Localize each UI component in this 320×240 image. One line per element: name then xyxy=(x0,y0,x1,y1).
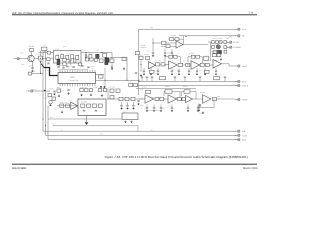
ground left cluster extra xyxy=(53,93,56,96)
junction 8 xyxy=(108,99,109,100)
wire fb drop U202-2 xyxy=(183,36,185,45)
capacitor filter internal extra 2 xyxy=(68,60,70,63)
resistor R269 mixer column xyxy=(136,52,140,55)
wire to SQ WIPE pin xyxy=(227,46,229,48)
capacitor row3 bypass 2 xyxy=(153,105,155,108)
pin U201 bottom 12 xyxy=(87,84,89,87)
resistor R282 xyxy=(160,77,166,80)
wire collector output xyxy=(39,52,54,54)
wire row3 seg3 xyxy=(193,98,203,100)
wire IF2 drop xyxy=(111,53,113,60)
connector pin STAT B xyxy=(235,84,240,87)
ground row3 bypass 4 xyxy=(171,109,174,112)
capacitor matching extra xyxy=(47,62,49,65)
wire net lower xyxy=(53,125,138,127)
wire stat line xyxy=(136,85,237,87)
header rule xyxy=(12,14,257,16)
ground row3 bypass 1 xyxy=(146,109,149,112)
wire row3 input vertical xyxy=(107,89,109,100)
capacitor C218 dark xyxy=(105,58,108,64)
pin U201 bottom 11 xyxy=(84,84,86,87)
arrow feed junction xyxy=(44,90,46,92)
wire fb rail U203-2 xyxy=(165,56,181,58)
ground C207 xyxy=(85,55,88,58)
pin U201 bottom 5 xyxy=(69,84,71,87)
ground squelch block xyxy=(85,122,89,125)
svg-text:R240: R240 xyxy=(128,82,132,84)
svg-text:AT CEL: AT CEL xyxy=(233,41,239,44)
svg-text:C204: C204 xyxy=(43,45,47,47)
wire row2 seg3 xyxy=(200,64,214,66)
svg-text:C208: C208 xyxy=(96,49,100,51)
resistor R273 feedback xyxy=(169,55,173,58)
svg-text:VOL: VOL xyxy=(150,129,153,131)
arrow pin 13 down xyxy=(103,86,105,88)
ground row2 bypass 2 xyxy=(150,73,153,76)
ground row3 bypass 6 xyxy=(197,109,200,112)
wire T3a input stub xyxy=(139,98,144,100)
ground row2 bypass 5 xyxy=(178,73,181,76)
ground cluster xyxy=(218,54,221,57)
capacitor T3a input xyxy=(137,100,139,103)
pin U201 top 4 xyxy=(67,70,69,73)
resistor R281 second fb box xyxy=(196,55,200,58)
wire mid rail xyxy=(110,57,127,59)
wire row2 seg2 xyxy=(177,64,191,66)
wire row3 input xyxy=(108,98,145,100)
ground row2 bypass 4 xyxy=(171,73,174,76)
resistor R296 feedback xyxy=(146,90,151,93)
svg-text:C202: C202 xyxy=(37,54,41,56)
junction 2 xyxy=(139,81,140,82)
svg-text:R223: R223 xyxy=(80,65,83,67)
ground Z202 b xyxy=(130,120,133,123)
svg-text:SQ IN: SQ IN xyxy=(242,134,248,137)
resistor R211 xyxy=(52,97,56,100)
resistor R235 xyxy=(92,104,96,107)
svg-text:STAT B: STAT B xyxy=(242,84,249,87)
ground C250 xyxy=(152,54,155,57)
inductor L201 xyxy=(30,49,34,52)
ground under R231 xyxy=(61,111,64,114)
capacitor C251 xyxy=(164,49,166,53)
filter block Z202 xyxy=(122,113,138,120)
svg-text:C245: C245 xyxy=(52,124,56,126)
capacitor C250 xyxy=(152,52,154,55)
op-amp U251-1 xyxy=(186,95,193,102)
capacitor row2 bypass 3 xyxy=(157,68,159,71)
svg-text:SQ DET: SQ DET xyxy=(81,101,87,104)
svg-text:C283: C283 xyxy=(140,105,143,107)
wire row3 seg1 xyxy=(154,98,169,100)
pin U201 bottom 14 xyxy=(92,84,94,87)
svg-text:C274: C274 xyxy=(176,70,179,72)
op-amp U204-2 xyxy=(191,61,200,69)
ground row3 in 3 xyxy=(132,107,135,110)
ground V139 base xyxy=(140,74,143,77)
wire IF bus thick segment xyxy=(41,64,44,68)
svg-text:C227: C227 xyxy=(60,90,63,92)
resistor R251 xyxy=(175,38,179,41)
capacitor C207 xyxy=(85,53,87,55)
op-amp U250-2 xyxy=(168,95,177,103)
wire RX audio line to J2 xyxy=(179,35,237,37)
ground spkr fb xyxy=(202,111,205,114)
svg-text:C220: C220 xyxy=(60,57,64,59)
ground C252 xyxy=(171,54,174,57)
capacitor C212 injection xyxy=(29,72,32,75)
svg-text:R264: R264 xyxy=(213,45,217,47)
pin U201 top 3 xyxy=(64,70,66,73)
wire vertical x153 xyxy=(152,38,154,52)
connector pin TX A xyxy=(235,28,240,31)
filter element 3 xyxy=(66,55,69,59)
resistor R225 xyxy=(57,89,61,92)
svg-text:C200: C200 xyxy=(20,53,24,55)
ground C225 xyxy=(67,92,70,95)
crystal filter FL201 outline xyxy=(54,51,82,64)
connector pin VOL xyxy=(235,130,240,133)
svg-text:R265: R265 xyxy=(150,27,153,29)
svg-text:R204: R204 xyxy=(88,53,92,55)
resistor R232 xyxy=(66,104,70,107)
svg-text:R203: R203 xyxy=(63,46,67,48)
wire IF signal heavy trace xyxy=(44,68,58,76)
svg-text:C273: C273 xyxy=(152,70,155,72)
resistor R220 xyxy=(90,58,93,61)
capacitor C209 dark body xyxy=(105,58,109,62)
wire squelch row xyxy=(57,105,78,107)
resistor R258 xyxy=(212,46,215,49)
junction 5 xyxy=(141,64,142,65)
wire row3 seg2 xyxy=(177,98,186,100)
svg-text:VOL: VOL xyxy=(242,130,246,133)
svg-text:SPKR +: SPKR + xyxy=(242,98,248,101)
svg-text:R290 R291: R290 R291 xyxy=(108,87,115,89)
ground row3 bypass 2 xyxy=(153,109,156,112)
wire net to R9 block xyxy=(48,118,122,120)
resistor R206 xyxy=(110,59,114,62)
op-amp U250-1 xyxy=(145,95,154,103)
svg-text:C260: C260 xyxy=(214,35,217,37)
ground C210 xyxy=(49,104,52,107)
wire fb rail U251-1 xyxy=(182,91,197,93)
wire drop to volume bus xyxy=(137,126,139,131)
squiggle volume arrow xyxy=(226,37,232,39)
wire vertical x210.5 xyxy=(210,42,212,61)
resistor R280 xyxy=(217,54,221,57)
capacitor filter-IC band 4 xyxy=(87,66,89,69)
capacitor C210 polarized xyxy=(49,100,53,104)
pin U201 bottom 7 xyxy=(74,84,76,87)
ground row2 bypass 1 xyxy=(143,73,146,76)
capacitor stub line1 1 xyxy=(141,78,143,81)
transistor Q201 xyxy=(28,55,34,61)
resistor R259b xyxy=(224,46,227,49)
junction 11 xyxy=(43,119,44,120)
resistor R293 xyxy=(119,97,123,100)
junction 4 xyxy=(186,36,187,37)
pin U201 bottom 1 xyxy=(59,84,61,87)
wire rssi bus xyxy=(48,106,237,140)
svg-text:C246: C246 xyxy=(60,129,63,131)
resistor R298 xyxy=(160,97,164,100)
wire volume bus xyxy=(43,51,237,132)
svg-text:C221: C221 xyxy=(59,65,62,67)
resistor R230 xyxy=(103,89,106,92)
ground Z202 a xyxy=(124,120,127,123)
capacitor stub line1 5 xyxy=(184,78,186,81)
ground C291 xyxy=(198,109,201,112)
filter element 4 xyxy=(71,55,74,59)
junction injection node xyxy=(40,73,41,74)
resistor R218 xyxy=(73,59,76,62)
capacitor stub line1 3 xyxy=(151,78,153,81)
junction row2 mid xyxy=(199,65,200,66)
ground R228 xyxy=(90,93,93,96)
ground row2 bypass 3 xyxy=(157,73,160,76)
filter element 5 xyxy=(76,55,79,59)
junction 10 xyxy=(181,99,182,100)
op-amp U202-2 xyxy=(176,41,183,48)
resistor R233 xyxy=(81,104,85,107)
ground R225 xyxy=(58,94,61,97)
wire bias drop xyxy=(40,63,42,73)
svg-text:R231 R232: R231 R232 xyxy=(60,102,67,104)
wire RF input to Q201 xyxy=(20,58,28,60)
resistor R241 xyxy=(134,83,138,86)
resistor R228 xyxy=(89,89,92,92)
resistor R270 xyxy=(139,56,143,59)
capacitor C216 xyxy=(69,59,71,62)
svg-text:R277: R277 xyxy=(207,61,211,63)
wire TX audio line to J2 xyxy=(139,28,237,30)
capacitor above IC extra 1 xyxy=(66,65,68,68)
ground row2 bypass 8 xyxy=(204,73,207,76)
pin U201 bottom 6 xyxy=(72,84,74,87)
resistor R234 xyxy=(87,104,91,107)
connector J3 discriminator input xyxy=(27,90,33,93)
junction filter out node xyxy=(102,52,103,53)
resistor R236 xyxy=(98,104,102,107)
wire to SPKR pin xyxy=(216,98,235,100)
wire flat audio line xyxy=(139,81,237,83)
svg-text:R200: R200 xyxy=(21,64,25,66)
wire B2 drop xyxy=(43,51,45,53)
resistor R301 xyxy=(182,97,185,100)
capacitor C290 xyxy=(199,103,201,106)
wire squelch gnd drop xyxy=(86,116,88,122)
resistor R231 xyxy=(60,104,64,107)
wire U201 top rail xyxy=(58,68,88,70)
capacitor row2 bypass 6 xyxy=(188,68,190,71)
resistor R271 xyxy=(156,63,160,66)
resistor R257 xyxy=(224,41,227,44)
svg-text:R238: R238 xyxy=(94,87,97,89)
op-amp U251-2 speaker driver xyxy=(203,95,212,103)
resistor R255 xyxy=(212,41,215,44)
capacitor stub line1 7 xyxy=(224,78,226,81)
wire injection to IF xyxy=(32,73,43,75)
wire base feed xyxy=(31,52,33,56)
pin U201 top 11 xyxy=(84,70,86,73)
capacitor row2 bypass 9 xyxy=(215,68,217,71)
capacitor filter-IC band 2 xyxy=(62,66,64,69)
svg-text:R247: R247 xyxy=(100,134,103,136)
resistor R290 xyxy=(110,89,114,92)
resistor R205 xyxy=(103,53,107,57)
wire vertical x127 xyxy=(126,58,128,81)
pin U201 top 10 xyxy=(82,70,84,73)
ground R226 xyxy=(80,93,83,96)
pin U201 top 1 xyxy=(59,70,61,73)
ground row2 bypass 9 xyxy=(215,73,218,76)
resistor R202 xyxy=(42,47,47,50)
wire U202-2 output xyxy=(183,44,208,46)
svg-text:C290: C290 xyxy=(199,113,202,115)
resistor R207 xyxy=(122,57,126,60)
resistor R260 below xyxy=(213,50,217,53)
op-amp U204-1 squelch xyxy=(71,102,78,109)
connector SQ WIPE inner xyxy=(227,46,232,49)
resistor R291 xyxy=(116,89,120,92)
connector pin AB AT xyxy=(235,65,240,68)
capacitor left cluster extra xyxy=(53,90,55,93)
capacitor C291 xyxy=(198,104,200,107)
junction 7 xyxy=(188,65,189,66)
wire to AT CEL pin xyxy=(227,41,229,43)
arrow pin 12 down xyxy=(100,86,102,88)
resistor R278 xyxy=(205,63,209,66)
svg-text:Y201: Y201 xyxy=(56,54,59,56)
capacitor row3 bypass 1 xyxy=(146,105,148,108)
capacitor row2 bypass 7 xyxy=(196,68,198,71)
capacitor C255 polarized xyxy=(219,40,223,44)
capacitor C205 xyxy=(47,51,50,54)
capacitor C252 xyxy=(171,49,173,52)
capacitor row3 in 3 xyxy=(133,102,135,105)
capacitor row2 bypass 8 xyxy=(204,68,206,71)
wire filter output xyxy=(81,52,112,54)
capacitor row2 bypass 1 xyxy=(143,68,145,71)
capacitor C217 xyxy=(94,58,97,61)
resistor R279 xyxy=(213,54,217,57)
wire U201 right rail to V139 xyxy=(96,79,140,81)
wire row AT CEL xyxy=(208,41,212,43)
footer rule xyxy=(12,163,257,165)
resistor R237 right of IC xyxy=(99,75,104,78)
resistor R300 xyxy=(177,97,181,100)
svg-text:C226 R227: C226 R227 xyxy=(80,87,87,89)
junction x127 on rail xyxy=(127,80,128,81)
pin U201 top 8 xyxy=(77,70,79,73)
capacitor row2 bypass 2 xyxy=(150,68,152,71)
capacitor C257 dark blob xyxy=(218,50,222,54)
op-amp U206 audio PA xyxy=(213,60,222,68)
wire vertical net V139 xyxy=(138,29,140,95)
wire inverting input xyxy=(153,42,176,44)
resistor row2 bias a xyxy=(150,70,155,73)
wire discriminator feed xyxy=(33,90,50,92)
resistor R240 xyxy=(129,83,133,86)
pin U201 top 6 xyxy=(72,70,74,73)
resistor matching extra xyxy=(47,58,50,61)
svg-text:R201: R201 xyxy=(29,66,33,68)
wire collector right xyxy=(34,58,53,60)
wire fb rail U204-2 xyxy=(188,56,203,58)
pin U201 top 5 xyxy=(69,70,71,73)
capacitor row2 bypass 5 xyxy=(178,68,180,71)
ground row3 in 1 xyxy=(120,107,123,110)
junction 6 xyxy=(165,65,166,66)
capacitor C232 xyxy=(95,109,97,112)
resistor R302 feedback xyxy=(184,90,190,93)
resistor R210 xyxy=(48,94,52,97)
pin U201 bottom 8 xyxy=(77,84,79,87)
pin U201 bottom 10 xyxy=(82,84,84,87)
connector pin SPKR + xyxy=(235,98,240,101)
ground C211 xyxy=(111,67,114,70)
svg-text:March 2006: March 2006 xyxy=(243,167,258,170)
junction row3 mid xyxy=(176,99,177,100)
wire noninverting input xyxy=(161,45,176,47)
pin U201 bottom 2 xyxy=(62,84,64,87)
wire PA output to AB AT xyxy=(222,64,235,66)
resistor R250 xyxy=(170,38,174,41)
svg-text:R215: R215 xyxy=(50,87,54,90)
wire fb rail U250-2 xyxy=(164,91,180,93)
capacitor filter-IC band 3 xyxy=(72,66,74,69)
junction 3 xyxy=(153,43,154,44)
ground C251 xyxy=(164,54,167,57)
ground below R230 xyxy=(101,94,104,97)
resistor R254 second fb box xyxy=(174,55,178,58)
capacitor C203 xyxy=(39,56,43,60)
wire bias vertical x40.5 xyxy=(40,51,42,57)
pin U201 bottom 9 xyxy=(79,84,81,87)
filter element 1 xyxy=(56,55,59,59)
resistor R283 xyxy=(214,77,220,80)
resistor R221 xyxy=(99,59,103,62)
filter element 2 xyxy=(61,55,64,59)
ground R207 xyxy=(123,67,126,70)
resistor R256 xyxy=(216,41,219,44)
ground row2 bypass 7 xyxy=(196,73,199,76)
svg-text:C275: C275 xyxy=(199,70,202,72)
op-amp U203-2 xyxy=(169,61,178,69)
resistor R259 xyxy=(204,56,209,60)
wire spkr feedback drop xyxy=(200,99,214,108)
capacitor C268 V139 xyxy=(135,72,137,75)
capacitor row2 bypass 4 xyxy=(171,68,173,71)
wire row3 fb bus xyxy=(136,88,196,90)
resistor R227 xyxy=(85,89,88,92)
capacitor C211 xyxy=(111,62,113,66)
resistor row2 bias b xyxy=(205,70,210,73)
pin U201 top 12 xyxy=(87,70,89,73)
junction 1 xyxy=(139,80,140,81)
pin U201 bottom 4 xyxy=(67,84,69,87)
resistor above IC extra xyxy=(79,63,82,66)
resistor R252 xyxy=(162,42,166,45)
svg-text:SQ WIPE: SQ WIPE xyxy=(233,46,241,49)
svg-text:R271 R272: R271 R272 xyxy=(154,61,161,63)
resistor R226 xyxy=(80,89,83,92)
capacitor C256 polarized dark xyxy=(216,45,220,49)
capacitor row3 bypass 5 xyxy=(187,105,189,108)
connector pin RSSI xyxy=(235,138,240,141)
svg-text:IF IN: IF IN xyxy=(32,71,35,73)
